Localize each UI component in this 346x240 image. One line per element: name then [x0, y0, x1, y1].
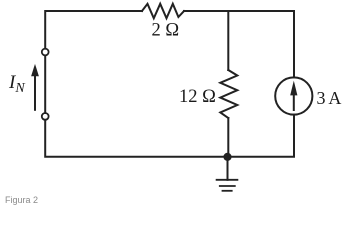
IN arrow stem	[34, 73, 36, 110]
wire middle branch bottom	[227, 118, 229, 157]
svg-text:IN: IN	[8, 72, 25, 96]
svg-text:2 Ω: 2 Ω	[152, 20, 180, 40]
wire middle branch top	[227, 11, 229, 70]
resistor R2 zigzag	[220, 70, 237, 118]
wire top-left segment	[45, 11, 142, 49]
wire top-right segment	[184, 11, 294, 77]
wire bottom-right segment	[228, 115, 295, 157]
source arrow stem	[293, 93, 295, 110]
ground bar 2	[220, 185, 235, 187]
ground bar 3	[223, 190, 232, 192]
resistor R1 zigzag	[142, 4, 184, 18]
source arrowhead	[290, 81, 297, 96]
wire between terminals	[44, 56, 46, 114]
IN arrowhead	[31, 64, 39, 76]
terminal b (bottom circle)	[42, 113, 49, 120]
terminal a (top circle)	[42, 49, 49, 56]
ground stem	[227, 157, 229, 180]
svg-text:12 Ω: 12 Ω	[179, 87, 216, 107]
caption Figura 2	[5, 195, 38, 205]
current source U1 circle	[275, 77, 312, 114]
wire left-bottom segment	[45, 120, 227, 157]
junction node dot	[223, 153, 231, 161]
ground bar 1	[217, 179, 238, 181]
svg-text:3 A: 3 A	[317, 88, 342, 108]
